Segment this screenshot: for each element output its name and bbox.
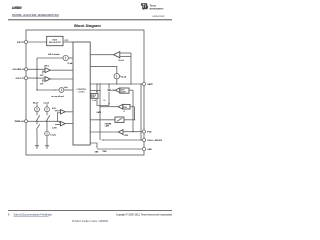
svg-text:1.25V: 1.25V [124, 135, 129, 137]
pgd back wire [123, 131, 143, 133]
current source arrows [37, 57, 117, 135]
svg-text:55 mV: 55 mV [119, 60, 125, 62]
svg-text:21 µA: 21 µA [68, 62, 74, 65]
wire OVLO output [50, 78, 73, 80]
arrow into driver box [96, 91, 98, 93]
internal VIN rail [36, 58, 38, 90]
wire I2 to logic [64, 89, 73, 91]
svg-text:LOGIC: LOGIC [78, 92, 85, 94]
svg-text:22 µA: 22 µA [121, 76, 127, 79]
wire to amp B [100, 106, 118, 108]
wire timer high output [65, 111, 73, 113]
wire clamp to x133 [129, 89, 133, 91]
multiplier input wire [90, 119, 115, 121]
comparator OVLO [45, 77, 50, 82]
svg-text:CONTROL: CONTROL [77, 89, 88, 91]
outer IC box [26, 30, 144, 155]
amp current limit [114, 52, 120, 58]
driver box [91, 94, 98, 99]
current source I1 [63, 55, 68, 60]
current source gate [114, 74, 119, 79]
svg-text:1.25V: 1.25V [52, 127, 57, 129]
wire VIN to bias regulator [27, 41, 46, 43]
svg-text:GATE: GATE [147, 83, 153, 86]
svg-text:Texas: Texas [150, 4, 157, 7]
multiplier diagonal [117, 118, 122, 121]
amp power limit [118, 104, 123, 109]
pin GATE [142, 82, 145, 85]
svg-text:GND: GND [147, 149, 152, 151]
comparator UVLO [45, 68, 50, 73]
pin PGD [142, 130, 145, 133]
svg-text:VIN: VIN [17, 42, 21, 44]
amp A input wires [120, 52, 131, 54]
svg-text:Product Folder Links: LM5069: Product Folder Links: LM5069 [72, 220, 109, 223]
svg-text:85 µA: 85 µA [33, 102, 39, 105]
wire logic to gate source [90, 66, 117, 73]
svg-text:UVLO/EN: UVLO/EN [13, 69, 22, 71]
svg-text:VCC: VCC [65, 40, 70, 42]
stub above timer charge source [36, 104, 38, 107]
svg-text:2.9 µA: 2.9 µA [50, 133, 56, 136]
current source timer 2 [45, 107, 50, 112]
svg-text:Copyright © 2006–2013, Texas I: Copyright © 2006–2013, Texas Instruments… [116, 214, 173, 217]
wire OVLO pin to comparator [27, 77, 45, 79]
svg-text:at turn-off and: at turn-off and [52, 95, 64, 98]
wire timer discharge top [46, 121, 48, 131]
ground symbol left [35, 146, 39, 149]
junction dots [36, 69, 141, 141]
comparator PGD [118, 130, 123, 135]
driver drop [96, 84, 98, 94]
pin leads [21, 42, 25, 121]
arrow into x100 [102, 139, 104, 141]
footer rule [8, 210, 172, 212]
svg-text:INSTRUMENTS: INSTRUMENTS [150, 8, 165, 10]
switch S3 [36, 121, 38, 124]
svg-text:REGULATOR: REGULATOR [49, 41, 61, 44]
wire logic to amp A [90, 54, 113, 56]
svg-text:Submit Documentation Feedback: Submit Documentation Feedback [14, 213, 53, 217]
pin terminals [24, 40, 145, 150]
pin OVLO [24, 77, 27, 80]
ref stub UVLO [43, 71, 45, 73]
timer line [27, 120, 59, 122]
wire 2.5uA row [37, 89, 59, 91]
arrow Q1 to rail [108, 103, 110, 105]
svg-text:UVLO: UVLO [44, 66, 50, 68]
ref stub T3 [55, 110, 61, 112]
svg-text:OVLO: OVLO [16, 78, 22, 80]
svg-text:2.2 µA: 2.2 µA [44, 102, 50, 105]
pin OUT [142, 138, 145, 141]
transistor Q1 [108, 84, 111, 106]
current source timer charge [35, 107, 40, 112]
control logic box [73, 42, 90, 145]
comparator timer high [61, 110, 66, 114]
wire timer low output [65, 123, 73, 125]
svg-text:PGD: PGD [147, 132, 152, 134]
driver box to rail [97, 98, 109, 105]
svg-text:BIAS: BIAS [53, 38, 58, 41]
pin arrows [22, 41, 24, 122]
labels (tiny) [13, 38, 163, 153]
stub above timer source 2 [46, 104, 48, 107]
multiplier output wire [124, 119, 135, 121]
header rule [8, 19, 172, 21]
pgd comparator wire [90, 131, 118, 133]
svg-text:LM5069: LM5069 [12, 6, 22, 10]
clamp triangle T2 [115, 88, 120, 93]
wire 21uA row [37, 57, 63, 59]
ref stub T4 [55, 124, 61, 126]
comparator timer low [61, 121, 66, 125]
svg-text:Block Diagram: Block Diagram [74, 24, 101, 28]
ground symbol right [45, 146, 49, 149]
pin TIMER [24, 120, 27, 123]
svg-text:UVLO = EN/16V: UVLO = EN/16V [147, 140, 162, 142]
svg-text:CL: CL [123, 111, 125, 113]
current source I2 [59, 88, 64, 93]
svg-text:UVLO disable: UVLO disable [48, 54, 60, 56]
riser to comparator T3 [58, 113, 61, 122]
gate bus [90, 83, 142, 85]
bias regulator box [47, 36, 63, 45]
vertical x100 [99, 84, 101, 140]
amp B ref box [123, 104, 130, 109]
wire to ground right [46, 136, 48, 146]
clamp box [120, 88, 129, 93]
out sense line [140, 84, 142, 140]
svg-text:www.ti.com: www.ti.com [153, 15, 165, 18]
pin GND [142, 147, 145, 150]
wire bias regulator to control logic (VCC) [63, 41, 73, 43]
pin UVLO/EN [24, 68, 27, 71]
wire amp A inputs to bus [130, 53, 132, 84]
wire to OUT pin row [102, 139, 143, 141]
switch S1 [36, 112, 38, 116]
jog to comparator T4 [59, 121, 60, 122]
wire UVLO pin to comparator [27, 68, 45, 70]
wire UVLO output [50, 69, 73, 71]
TI logo symbol [141, 3, 148, 10]
wire to ground left [36, 130, 38, 146]
wire I1 to logic [68, 57, 73, 59]
gnd net wire [90, 143, 97, 147]
wire logic to driver [90, 90, 100, 92]
pin VIN [24, 40, 27, 43]
ref stub OVLO [43, 80, 45, 82]
switch S2 [46, 112, 48, 116]
svg-text:TIMER: TIMER [15, 121, 22, 123]
current source timer discharge [45, 131, 50, 136]
multiplier box [115, 117, 124, 122]
